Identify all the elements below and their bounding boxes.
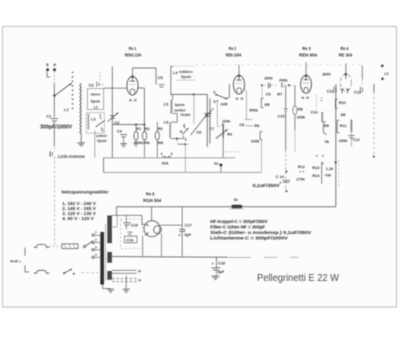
- capacitor C15: [123, 215, 137, 229]
- wire rail A to transformer: [116, 207, 118, 216]
- svg-text:C 14: C 14: [276, 174, 285, 179]
- resistor R12 body: [350, 120, 352, 147]
- svg-text:R8: R8: [298, 106, 304, 111]
- transformer core line: [105, 224, 107, 281]
- switch K untere contacts: [99, 114, 103, 133]
- resistor R1: [134, 125, 143, 145]
- node R2 top: [143, 124, 145, 126]
- mains selector contact 4: [92, 253, 97, 259]
- ground under R1: [134, 143, 139, 146]
- label H winding 2: [138, 279, 141, 283]
- bracket mains: [25, 248, 29, 272]
- svg-text:2: 2: [101, 129, 103, 133]
- wire bus connector: [103, 158, 105, 173]
- label 270k: [296, 177, 305, 181]
- wire Re2 cathode to C8: [244, 88, 246, 119]
- resistor R10: [335, 99, 345, 108]
- wire heater winding 1: [112, 270, 137, 273]
- svg-text:R5: R5: [265, 102, 271, 107]
- svg-text:H: H: [236, 97, 239, 101]
- wire untere Spule to bus: [94, 131, 96, 158]
- svg-text:TA: TA: [324, 140, 329, 144]
- svg-text:N=R: N=R: [10, 260, 18, 264]
- svg-text:Re 3: Re 3: [302, 46, 311, 51]
- svg-text:3: 3: [95, 245, 97, 249]
- svg-text:REN 1004: REN 1004: [226, 52, 242, 57]
- resistor R8 body: [293, 106, 297, 115]
- svg-text:1M: 1M: [340, 113, 345, 117]
- svg-text:100k: 100k: [339, 139, 348, 143]
- tube Re2: [233, 75, 244, 94]
- svg-text:H: H: [138, 270, 141, 274]
- speaker terminal a lower: [381, 78, 384, 81]
- wire return rail dashes: [229, 256, 299, 258]
- wire L6 bottom rail: [171, 135, 184, 138]
- node koppel junction: [288, 84, 290, 86]
- svg-text:270k: 270k: [296, 177, 305, 181]
- svg-text:1: 1: [95, 231, 97, 235]
- switch K wave band: [180, 123, 188, 141]
- ground transformer right: [123, 289, 130, 292]
- wire R6 down to bus2: [260, 140, 262, 173]
- svg-text:R7: R7: [277, 91, 282, 96]
- wire R2 to bus: [144, 140, 146, 158]
- svg-text:Dr: Dr: [234, 197, 239, 202]
- wire Re1 grid line: [104, 87, 127, 89]
- svg-text:C14: C14: [311, 111, 319, 115]
- svg-text:RENS 1204: RENS 1204: [125, 52, 142, 57]
- svg-text:A: A: [53, 62, 56, 67]
- svg-text:2: 2: [171, 152, 173, 156]
- transformer heater winding: [107, 271, 112, 280]
- wire Re1 anode to C5 bracket: [133, 68, 157, 85]
- svg-text:Th: Th: [214, 161, 219, 166]
- svg-text:Netzspannungswähler: Netzspannungswähler: [62, 190, 109, 195]
- svg-text:4. 90 V - 120 V: 4. 90 V - 120 V: [62, 216, 94, 221]
- wire R1 to ground: [135, 140, 137, 143]
- svg-text:C2: C2: [89, 82, 95, 87]
- wire junction drop x194: [193, 94, 195, 124]
- label L1: [64, 107, 69, 112]
- capacitor C1: [46, 114, 58, 121]
- svg-text:C15: C15: [131, 224, 138, 228]
- wire heater winding 2: [112, 279, 137, 282]
- wire bus1: [104, 157, 236, 159]
- transformer primary winding: [107, 216, 112, 244]
- svg-text:C4: C4: [117, 129, 123, 134]
- wire Re3 anode up: [305, 62, 307, 75]
- tube Re5: [142, 215, 162, 256]
- wire speaker vertical: [361, 65, 363, 86]
- svg-text:Pellegrinetti E 22 W: Pellegrinetti E 22 W: [257, 273, 339, 284]
- svg-text:Sieb-C (Gitter- u Anodensp.) 0: Sieb-C (Gitter- u Anodensp.) 0,1uF/350V: [210, 230, 312, 235]
- label H H Re3: [301, 96, 309, 100]
- svg-text:C16: C16: [126, 238, 133, 242]
- svg-text:E: E: [46, 62, 49, 67]
- wire core to ground hook: [103, 285, 111, 289]
- tube Re5 label: [143, 191, 162, 202]
- svg-text:untere: untere: [96, 134, 107, 138]
- capacitor C12: [348, 136, 359, 143]
- wire bracket right dashed: [338, 160, 340, 186]
- coil L2 winding: [80, 84, 81, 135]
- svg-text:R10: R10: [339, 101, 346, 105]
- svg-text:RE 304: RE 304: [339, 52, 353, 57]
- capacitor C14 sieb: [276, 171, 290, 193]
- label H H Re1: [129, 98, 137, 102]
- svg-text:1: 1: [99, 114, 101, 118]
- tube Re4 label: [339, 46, 353, 58]
- svg-text:HF-Koppel-C = 300pF/350V: HF-Koppel-C = 300pF/350V: [210, 219, 268, 224]
- label L5: [164, 102, 169, 107]
- box untere Spule: [86, 113, 104, 134]
- terminal Th: [214, 161, 223, 172]
- wire L4 down to junction: [171, 80, 173, 95]
- wire output rail vertical: [335, 84, 337, 207]
- svg-text:L5: L5: [384, 72, 388, 76]
- wire Re5 output: [160, 225, 182, 256]
- wire koppel line (dashed): [261, 84, 295, 86]
- resistor R12 label: [298, 165, 305, 172]
- capacitor C10: [278, 109, 288, 118]
- label untere Spule: [96, 134, 107, 143]
- svg-text:C5: C5: [158, 75, 164, 80]
- node L6 bottom junction: [176, 138, 178, 140]
- svg-text:Re 4: Re 4: [341, 46, 350, 51]
- label Netzspannungswaehler: [62, 190, 109, 195]
- svg-text:C6: C6: [196, 129, 202, 134]
- resistor R11: [337, 120, 346, 133]
- wire switch5 down to R4: [217, 102, 221, 127]
- wire antenna to mains (dashed): [54, 157, 56, 245]
- node dot on dashed vertical: [373, 156, 375, 158]
- label 200k: [279, 79, 288, 83]
- resistor R7: [277, 83, 283, 96]
- label 1M: [340, 113, 345, 117]
- label L6: [164, 120, 169, 125]
- svg-text:C13: C13: [354, 91, 361, 95]
- svg-text:C18: C18: [218, 261, 225, 265]
- svg-text:R1: R1: [136, 127, 141, 131]
- label 0,1uF/350V: [253, 183, 281, 189]
- mains selector contact 1: [92, 231, 97, 237]
- ground under C4: [120, 144, 127, 147]
- wire L2 to ground: [80, 134, 82, 143]
- wire primary right elbow: [112, 215, 117, 227]
- svg-text:500k: 500k: [249, 108, 258, 112]
- resistor R6: [254, 123, 262, 139]
- svg-text:REN 904: REN 904: [299, 52, 318, 57]
- svg-text:+30: +30: [325, 173, 331, 177]
- capacitor C17: [178, 207, 191, 256]
- mains selector contact 2: [92, 238, 97, 244]
- label 500k: [249, 108, 258, 112]
- box filter dashed: [121, 219, 143, 248]
- svg-text:R9: R9: [324, 123, 330, 128]
- capacitor C8: [239, 120, 253, 127]
- ground under L2: [77, 143, 85, 146]
- svg-text:200k: 200k: [297, 116, 306, 120]
- wire fuse to selector box (dashed): [49, 245, 62, 247]
- label voltage list: [62, 201, 96, 221]
- svg-text:R3: R3: [158, 127, 163, 131]
- terminal E: [46, 62, 49, 71]
- svg-text:R6: R6: [254, 123, 260, 128]
- svg-text:8µF: 8µF: [218, 270, 225, 274]
- svg-text:RGN 504: RGN 504: [143, 198, 162, 203]
- svg-text:Licht-Antenne: Licht-Antenne: [58, 154, 86, 159]
- svg-text:Spule: Spule: [97, 139, 107, 143]
- svg-text:Draht: Draht: [181, 113, 191, 117]
- resistor R13 label: [312, 166, 319, 170]
- resistor R5: [261, 98, 270, 107]
- label 200k R8: [297, 116, 306, 120]
- wire return rail: [112, 256, 228, 259]
- switch mains selector arm: [83, 241, 93, 248]
- wire speaker dashed vertical: [373, 84, 375, 158]
- label H H Re2: [236, 97, 244, 101]
- svg-text:H: H: [301, 96, 304, 100]
- transformer core bar: [100, 232, 104, 285]
- label 3000: [322, 72, 330, 76]
- capacitor C14 grid: [311, 95, 323, 115]
- transformer tap stubs: [94, 235, 100, 257]
- coil L3 winding: [88, 114, 90, 130]
- label N-R: [10, 260, 20, 264]
- wire R3 to bus: [156, 140, 158, 158]
- capacitor C18: [212, 257, 225, 276]
- svg-text:L3: L3: [91, 118, 95, 122]
- node R1 top: [135, 124, 137, 126]
- svg-text:H: H: [306, 96, 309, 100]
- svg-text:C10: C10: [278, 113, 285, 118]
- svg-text:Spule: Spule: [175, 103, 185, 107]
- wire Re2 anode up: [238, 65, 240, 76]
- node koppel left junction: [261, 84, 263, 98]
- coil L6 winding: [169, 122, 171, 138]
- svg-text:300pF/1000V: 300pF/1000V: [40, 125, 73, 131]
- svg-text:1: 1: [161, 152, 163, 156]
- svg-text:4: 4: [95, 253, 97, 257]
- potentiometer R4: [216, 120, 233, 139]
- svg-text:100k: 100k: [142, 141, 151, 145]
- tube Re2 label: [226, 46, 242, 57]
- wire grid rail: [171, 93, 208, 95]
- svg-text:R14: R14: [312, 174, 320, 178]
- coil L4 box mittlere Spule: [171, 66, 196, 80]
- label 100k R6: [251, 140, 260, 144]
- svg-text:R13: R13: [312, 166, 319, 170]
- svg-text:C8: C8: [239, 122, 245, 127]
- capacitor C13: [354, 87, 363, 95]
- svg-text:G/R: G/R: [221, 102, 228, 107]
- svg-text:100k: 100k: [222, 120, 231, 124]
- resistor R14 label: [312, 174, 320, 178]
- svg-text:C9: C9: [266, 91, 272, 96]
- capacitor C5: [158, 75, 165, 87]
- mains selector contact 3: [92, 245, 97, 251]
- resistor R9: [322, 112, 330, 135]
- svg-text:2: 2: [185, 137, 187, 141]
- wire antenna lead: [53, 72, 55, 118]
- switch K untere arm: [96, 120, 105, 126]
- wire R8 vertical: [294, 85, 296, 152]
- wire R1 R2 top rail: [112, 124, 144, 126]
- ground transformer left: [107, 289, 114, 292]
- label Spule weisser Draht: [173, 103, 191, 117]
- coil L7 label: [384, 72, 388, 76]
- tube Re3 label: [299, 46, 318, 58]
- label TA: [324, 140, 329, 144]
- wire power dashes: [82, 272, 99, 274]
- svg-text:1,2k: 1,2k: [326, 167, 334, 171]
- label 300pF/1000V: [40, 125, 73, 131]
- label Pellegrinetti E 22 W: [257, 273, 339, 284]
- svg-text:Spule: Spule: [91, 100, 101, 104]
- svg-text:C11: C11: [327, 89, 334, 93]
- wire bus2: [104, 171, 262, 173]
- svg-text:Re 1: Re 1: [129, 46, 137, 51]
- switch antenna tap selector contacts: [72, 72, 74, 110]
- speaker terminal a upper: [381, 65, 384, 68]
- svg-text:C17: C17: [185, 222, 192, 227]
- svg-text:Lichtantenne-C = 300pF/1000V: Lichtantenne-C = 300pF/1000V: [210, 236, 289, 241]
- svg-text:200k: 200k: [279, 79, 288, 83]
- svg-text:4µF: 4µF: [184, 232, 191, 237]
- switch power: [63, 269, 75, 275]
- tube Re1: [127, 76, 138, 95]
- tube Re4: [340, 73, 351, 93]
- svg-text:R12: R12: [298, 165, 305, 169]
- svg-text:K: K: [180, 130, 183, 134]
- capacitor C11: [327, 87, 337, 94]
- tube Re1 label: [125, 46, 142, 57]
- svg-text:Spule: Spule: [181, 75, 191, 79]
- svg-text:R2: R2: [145, 127, 150, 131]
- svg-text:H: H: [129, 98, 132, 102]
- wire K to bus2: [177, 140, 190, 172]
- svg-text:R11: R11: [340, 124, 347, 128]
- switch antenna tap selector arm: [53, 83, 71, 97]
- label Licht-Antenne: [58, 154, 86, 159]
- box obere Spule L2: [87, 89, 103, 110]
- wire Re5 top to rail: [151, 207, 153, 221]
- svg-text:H: H: [138, 279, 141, 283]
- svg-text:G/A: G/A: [162, 161, 169, 166]
- svg-text:2000: 2000: [264, 77, 272, 81]
- svg-text:Re 5: Re 5: [146, 191, 155, 196]
- bracket at E terminal: [47, 72, 50, 78]
- label 100k R11: [339, 139, 348, 143]
- svg-text:100k: 100k: [251, 140, 260, 144]
- svg-text:weißer: weißer: [173, 108, 186, 112]
- node dots cathode line: [316, 155, 337, 165]
- wire HT top rail (dashed): [196, 64, 362, 66]
- variable capacitor C3: [108, 112, 120, 125]
- svg-text:mittlere: mittlere: [179, 70, 193, 74]
- svg-text:L6: L6: [164, 120, 169, 125]
- terminal G/A: [161, 152, 173, 166]
- coil L5 winding: [171, 94, 178, 113]
- svg-text:L5: L5: [164, 102, 169, 107]
- wire anode feed vertical: [285, 85, 287, 188]
- svg-text:Filter-C Gitter NF = 300pF: Filter-C Gitter NF = 300pF: [210, 225, 265, 230]
- terminal A: [53, 62, 56, 71]
- wire Th dashes: [225, 151, 240, 153]
- label 2000: [264, 77, 272, 81]
- wire bracket R13: [321, 161, 323, 184]
- wire antenna lead lower: [53, 122, 55, 152]
- svg-text:H: H: [134, 98, 137, 102]
- capacitor Licht-Antenne: [50, 151, 52, 156]
- wire HT rail A right: [243, 206, 336, 208]
- svg-text:C1: C1: [46, 114, 52, 119]
- svg-text:3000: 3000: [322, 72, 330, 76]
- label L3: [91, 118, 95, 122]
- switch G/R: [213, 91, 228, 107]
- svg-text:C7: C7: [209, 126, 215, 131]
- svg-text:5: 5: [213, 100, 215, 104]
- variable capacitor C7: [205, 94, 215, 147]
- node junction on grid rail: [193, 93, 195, 95]
- svg-text:C12: C12: [353, 138, 360, 142]
- label HF-Koppel block: [210, 219, 312, 241]
- resistor R3: [155, 122, 164, 145]
- svg-text:2: 2: [95, 238, 97, 242]
- choke Dr: [230, 197, 244, 209]
- svg-text:L2: L2: [94, 105, 98, 109]
- svg-text:H: H: [240, 97, 243, 101]
- fuse upper: [34, 244, 49, 247]
- wire L5 to L6: [171, 113, 177, 122]
- voltage selector plug: [62, 244, 78, 249]
- label 1,2k: [326, 167, 334, 171]
- label H winding 1: [138, 270, 141, 274]
- svg-text:L1: L1: [64, 107, 69, 112]
- wire heater mid to ground: [125, 276, 127, 290]
- capacitor C4: [117, 129, 127, 144]
- capacitor C2: [89, 72, 105, 87]
- label +30: [325, 173, 331, 177]
- capacitor C16: [124, 232, 137, 243]
- resistor R2: [142, 125, 151, 145]
- wire grid bus vertical: [111, 67, 113, 158]
- svg-text:Re 2: Re 2: [229, 46, 237, 51]
- variable capacitor C6: [191, 113, 212, 135]
- svg-text:50k: 50k: [157, 141, 164, 145]
- svg-text:obere: obere: [91, 93, 101, 97]
- svg-text:3: 3: [213, 91, 215, 95]
- wire G/R to Re2 grid: [226, 84, 229, 99]
- wire Re1 plate right: [138, 88, 144, 131]
- resistor R8 label: [298, 106, 304, 111]
- ground under C18: [211, 276, 219, 279]
- svg-text:0,1uF/350V: 0,1uF/350V: [253, 183, 281, 189]
- wire Re4 anode up: [345, 63, 347, 73]
- fuse lower: [34, 270, 49, 273]
- tube Re3: [301, 74, 312, 93]
- wire rail B: [112, 214, 142, 216]
- wire HT rail A left: [117, 206, 232, 208]
- wire R4 down to bus: [222, 138, 224, 158]
- transformer HV winding: [107, 252, 112, 263]
- capacitor C9: [266, 83, 272, 97]
